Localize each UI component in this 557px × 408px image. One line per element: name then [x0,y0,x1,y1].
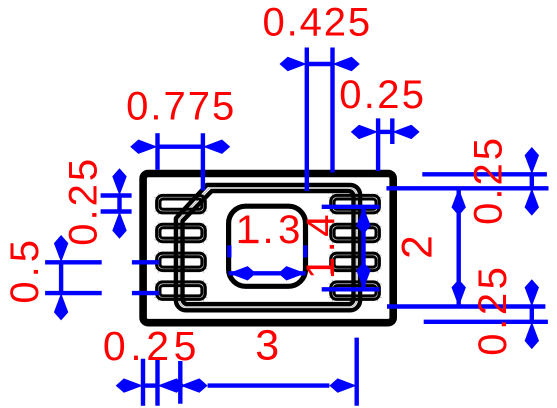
dim 0.25 left line and arrows [117,196,121,212]
pad 1 [157,195,206,213]
dim 1.3 line and arrows [229,271,306,275]
dim 0.5 line and arrows [59,262,63,293]
dim 0.775 line and arrows [158,144,203,148]
svg-text:0.25: 0.25 [471,263,515,355]
svg-text:1.4: 1.4 [299,210,343,279]
silkscreen body outline inner [183,191,354,304]
svg-text:0.425: 0.425 [262,0,372,44]
dim 0.25 top extension lines [376,118,380,171]
dim 0.425 extension lines [305,48,309,192]
silkscreen body outline outer [176,185,360,310]
pad 5 [331,282,380,300]
dim 0.25 right-bottom extension line [424,320,548,324]
dim 0.25 right-bottom line and arrows [530,307,534,322]
pad 8 [331,195,380,213]
dim 2 line and arrows [457,188,461,306]
dim 0.25 right-top line and arrows [530,174,534,188]
svg-text:1.3: 1.3 [236,208,305,252]
dim 0.25 left ticks [101,193,132,197]
dim 0.25 top line and arrows [378,130,392,134]
dim 0.5 extension lines [45,260,102,264]
dim 2 extension lines [386,186,548,190]
dim 1.4 extension lines [322,205,380,209]
fab pad crosses (faint) [154,193,381,301]
central thermal pad [229,206,306,286]
svg-text:0.25: 0.25 [103,323,201,369]
svg-text:0.25: 0.25 [466,135,510,225]
dim 3 extension lines [178,361,182,404]
svg-text:2: 2 [394,235,441,259]
svg-text:0.5: 0.5 [3,236,47,304]
dim 3 line and arrows [208,383,330,387]
pad 4 [157,282,206,300]
courtyard outer rectangle [143,174,393,323]
pad 2 [157,224,206,242]
dim 1.4 line and arrows [361,207,365,289]
pad 3 [157,253,206,271]
fab body outline (faint) [179,188,357,307]
svg-text:3: 3 [255,321,279,369]
dim 0.775 extension lines [155,133,159,170]
dim 0.25 bottom extension lines [141,359,145,406]
pad 7 [331,224,380,242]
svg-text:0.25: 0.25 [339,73,426,117]
pad 6 [331,253,380,271]
dim 0.25 bottom line and arrows [143,383,158,387]
svg-text:0.775: 0.775 [126,85,236,129]
dim 0.25 right-top extension line [422,172,547,176]
svg-text:0.25: 0.25 [62,156,106,246]
dim 1.3 extension stubs [227,245,231,257]
dim 0.425 line and arrows [307,62,333,66]
